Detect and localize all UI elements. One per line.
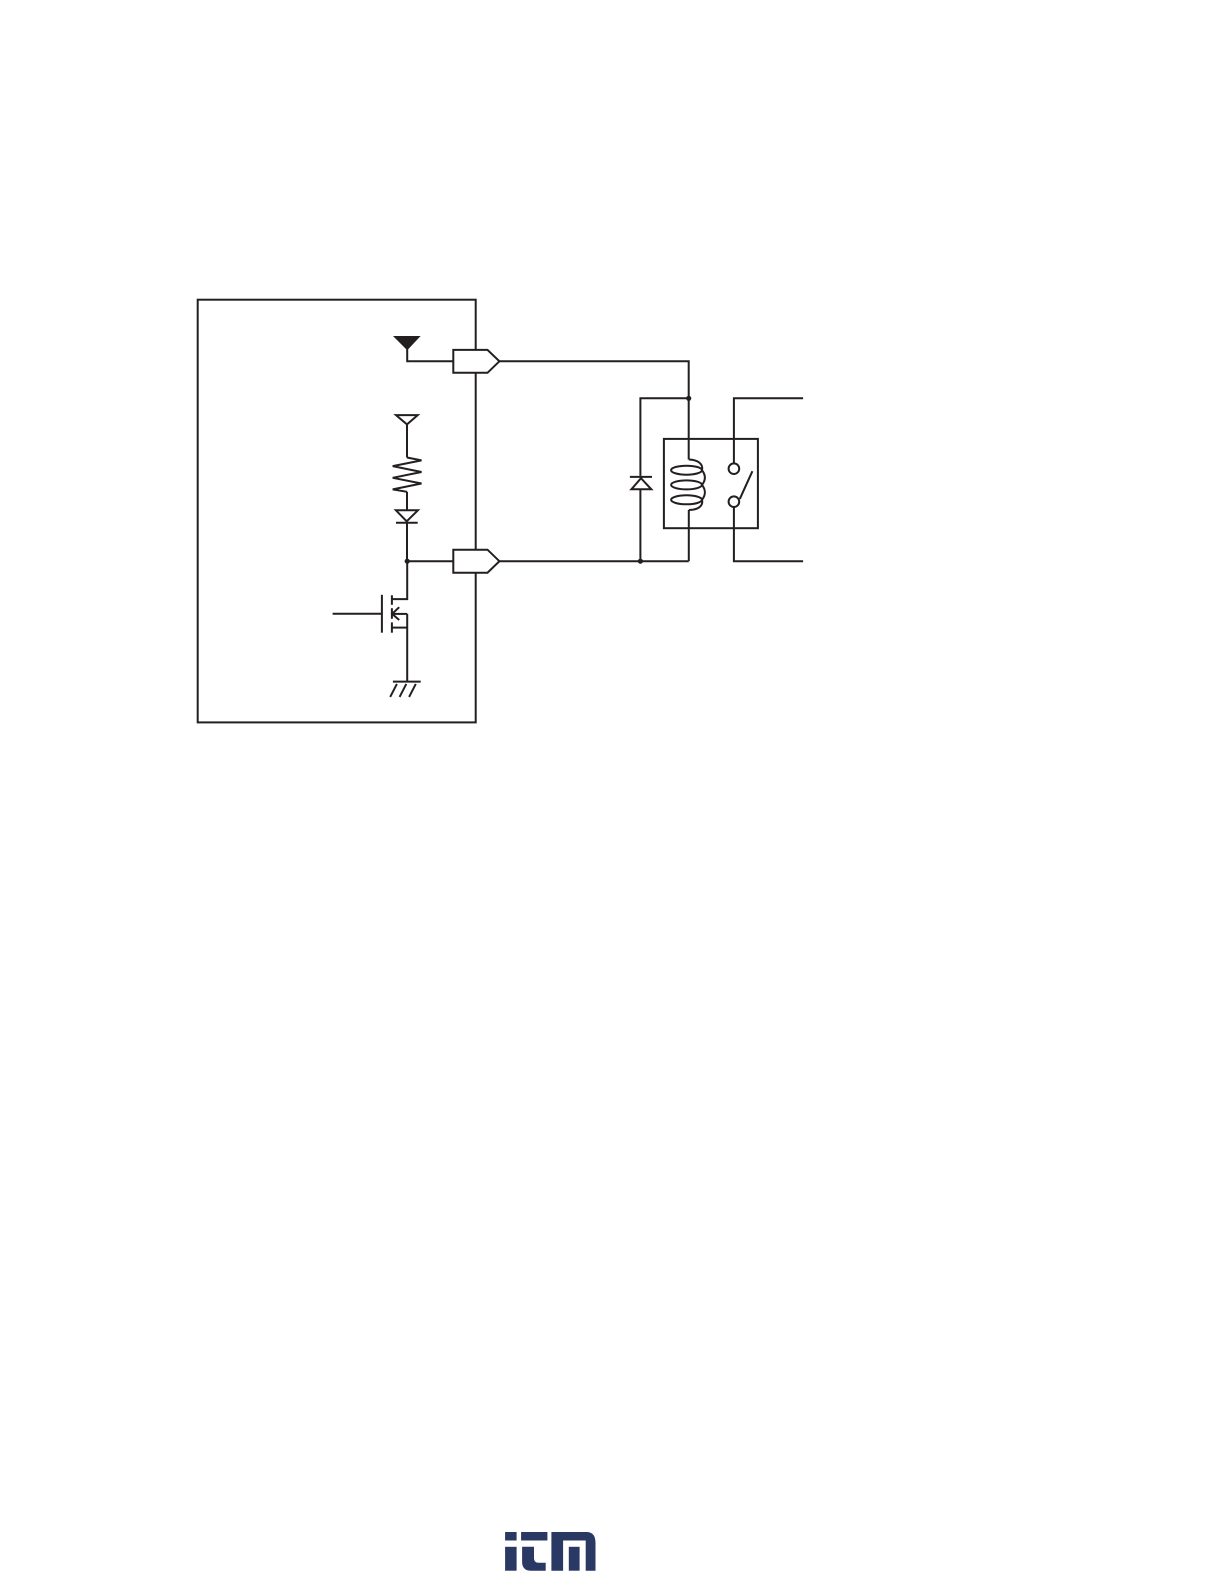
ground	[390, 682, 421, 697]
flyback diode D1	[630, 477, 652, 489]
relay K1 body	[664, 439, 758, 528]
power symbol VDD (filled triangle)	[395, 337, 418, 349]
relay switch blade	[740, 471, 753, 499]
wire diode D2 to node RELAY_L	[406, 523, 408, 561]
wire node to pin RELAY_L	[407, 560, 453, 562]
wire VDD to pin RELAY_H	[407, 348, 453, 362]
relay switch common lead to top right	[734, 398, 803, 463]
wire resistor to diode D2	[406, 492, 408, 511]
wire node to MOSFET drain	[392, 561, 407, 599]
wire junction to flyback diode cathode	[640, 398, 688, 476]
relay switch contact bottom	[729, 496, 740, 507]
wire triangle to resistor	[406, 424, 408, 457]
logo letter i	[505, 1532, 516, 1541]
IC block U1	[198, 300, 476, 723]
logo letter t	[521, 1532, 547, 1541]
power symbol (open triangle)	[396, 415, 418, 424]
logo ITM	[505, 1532, 595, 1571]
resistor R1	[393, 458, 422, 492]
wire relay coil bottom lead	[688, 510, 690, 561]
pin RELAY_L (bottom output pad)	[453, 550, 499, 573]
wire pin RELAY_H to relay coil top	[499, 361, 688, 459]
relay coil L1	[671, 460, 705, 511]
diode D2	[396, 510, 418, 523]
node junction coil top	[686, 396, 691, 401]
relay switch NO lead to bottom right	[734, 507, 803, 561]
transistor Q1 (NMOS)	[333, 595, 408, 633]
wire pin RELAY_L to relay bottom net	[499, 560, 688, 562]
node junction at pin RELAY_L	[405, 559, 410, 564]
pin RELAY_H (top output pad)	[453, 350, 499, 373]
relay switch contact top	[729, 463, 740, 474]
wire MOSFET source to ground	[406, 614, 408, 682]
node junction diode bottom	[638, 559, 643, 564]
logo letter m	[551, 1532, 595, 1571]
wire diode anode to bottom net	[639, 489, 641, 561]
